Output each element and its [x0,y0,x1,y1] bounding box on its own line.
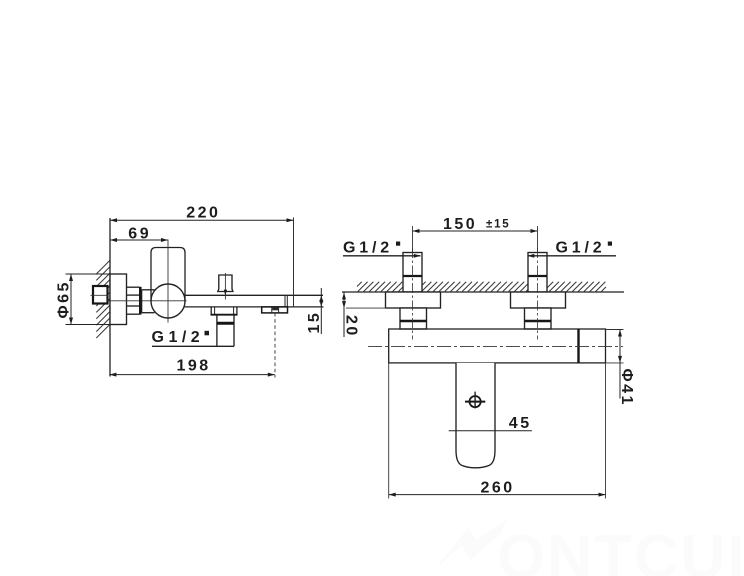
svg-text:±15: ±15 [486,219,511,231]
svg-text:260: 260 [481,480,515,497]
svg-text:G1/2: G1/2 [556,239,606,256]
svg-text:150: 150 [443,216,477,233]
svg-text:198: 198 [177,358,211,375]
svg-text:69: 69 [128,226,151,243]
svg-text:G1/2: G1/2 [343,239,393,256]
svg-text:15: 15 [306,311,323,334]
svg-text:20: 20 [343,315,360,338]
svg-text:G1/2: G1/2 [152,329,205,346]
svg-text:Φ65: Φ65 [56,280,73,318]
svg-text:220: 220 [186,205,220,222]
svg-text:Φ41: Φ41 [618,369,635,407]
svg-text:45: 45 [509,415,532,432]
svg-text:ONTCUI: ONTCUI [497,523,744,576]
